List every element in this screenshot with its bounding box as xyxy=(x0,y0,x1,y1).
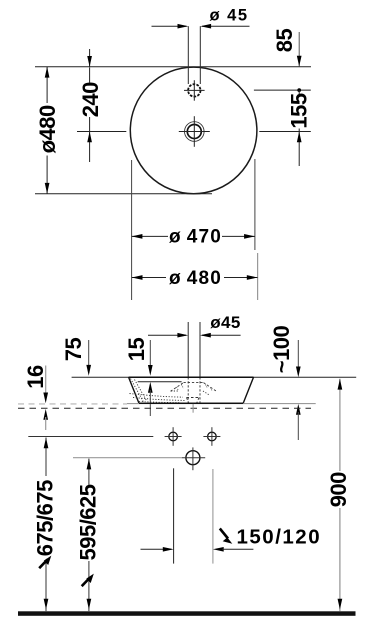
svg-text:15: 15 xyxy=(124,338,149,362)
svg-text:675/675: 675/675 xyxy=(33,480,58,556)
svg-text:~100: ~100 xyxy=(269,325,294,373)
svg-text:595/625: 595/625 xyxy=(75,484,100,560)
svg-text:240: 240 xyxy=(78,82,103,117)
svg-text:ø45: ø45 xyxy=(210,313,241,332)
svg-text:ø480: ø480 xyxy=(35,105,60,153)
svg-text:75: 75 xyxy=(61,338,86,362)
svg-text:ø 45: ø 45 xyxy=(209,7,248,25)
svg-text:16: 16 xyxy=(23,365,48,389)
svg-text:900: 900 xyxy=(326,472,351,507)
svg-text:150/120: 150/120 xyxy=(237,526,322,549)
svg-text:155: 155 xyxy=(287,93,312,128)
svg-text:85: 85 xyxy=(272,29,297,53)
svg-text:ø 480: ø 480 xyxy=(169,268,222,289)
svg-text:ø 470: ø 470 xyxy=(169,227,222,248)
